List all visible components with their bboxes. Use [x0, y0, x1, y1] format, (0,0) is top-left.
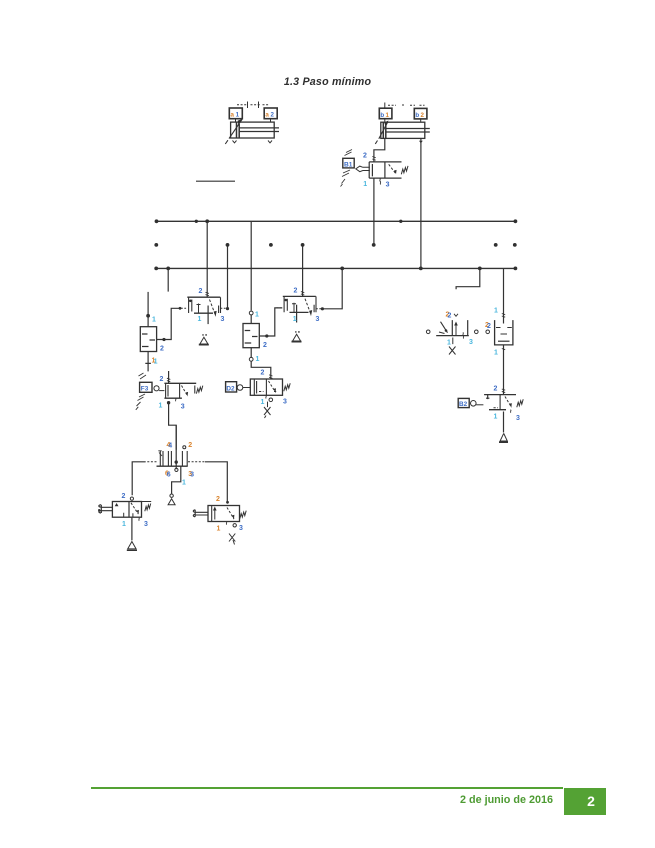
svg-text:3: 3	[469, 339, 473, 346]
junction dots upper manifold	[155, 219, 159, 223]
spring	[145, 504, 151, 512]
valve 1S2 (3/2 pilot valve, bottom left)	[98, 493, 151, 551]
footer date	[460, 794, 553, 806]
diagonal flow arrow	[269, 381, 276, 392]
spring	[240, 511, 246, 519]
sensor label box b2	[414, 108, 427, 119]
svg-text:F3: F3	[141, 386, 149, 393]
valve 3V2 (3/2 valve with label box B2, right lower)	[458, 385, 523, 442]
wire: dot stub down to valve 2V2 port 2	[302, 245, 304, 297]
cylinder 1A1 (left, double-acting)	[225, 102, 279, 145]
impulse valve 1V3 (5/2 double pilot, centre)	[132, 425, 227, 505]
centre bars	[197, 304, 201, 314]
svg-text:1: 1	[198, 316, 202, 323]
right bars	[219, 297, 221, 313]
right pilot dashes + node	[221, 307, 228, 309]
svg-text:2: 2	[122, 493, 126, 500]
internal port ticks	[124, 513, 133, 517]
bottom port stub	[145, 352, 151, 372]
sensor label box b1	[379, 108, 392, 119]
actuation arrow (diagonal)	[225, 119, 242, 144]
svg-text:3: 3	[181, 403, 185, 410]
svg-text:1: 1	[255, 312, 259, 319]
internal flow triangle	[115, 503, 119, 506]
valve body	[164, 383, 196, 398]
port 2 tick	[372, 157, 375, 161]
cylinder 1A1 body	[231, 122, 275, 138]
left pilot dashes	[277, 307, 283, 309]
floating top connector line	[147, 292, 149, 327]
label box with roller icon	[140, 382, 152, 392]
wire: valve 2S1 port 1 down through upper manifold, dot end	[373, 178, 375, 244]
connection arrow on 2A1 right port wire	[419, 141, 423, 144]
svg-text:2: 2	[294, 287, 298, 294]
top connector circle	[249, 311, 253, 315]
roller lever	[439, 322, 448, 334]
junction dots lower manifold	[154, 267, 158, 271]
svg-text:2: 2	[261, 370, 265, 377]
footer page number block	[564, 788, 606, 815]
footer green rule	[91, 787, 563, 790]
port 3 tick	[379, 178, 382, 184]
diagonal flow arrow	[389, 164, 396, 173]
body	[208, 506, 240, 522]
diagonal flow arrow	[210, 300, 216, 315]
svg-text:1: 1	[154, 358, 158, 365]
manual override X below	[264, 402, 271, 418]
internal up arrow	[455, 324, 457, 336]
right pilot wire	[188, 461, 205, 463]
svg-text:b: b	[380, 112, 384, 119]
svg-text:2: 2	[448, 313, 452, 320]
svg-text:3: 3	[386, 182, 390, 189]
internal diagonal	[131, 503, 138, 514]
shuttle valve 2V1 (two-pressure valve, middle group)	[243, 308, 282, 363]
valve body	[250, 379, 282, 395]
sensor label box a2	[264, 108, 277, 119]
port 2 wire to valve 1V2 pilot	[157, 308, 180, 339]
internal diagonal	[227, 508, 234, 520]
cup body	[495, 320, 513, 345]
svg-text:B1: B1	[344, 161, 353, 168]
timer volume 3V1 (right group)	[485, 308, 513, 395]
wire from shuttle 2V1 bottom circle to port 2	[251, 361, 271, 379]
return spring	[401, 166, 408, 174]
label arrow from B1 box	[356, 166, 370, 172]
right pilot dashes + node	[316, 308, 322, 310]
valve 2S2 (3/2 valve with label box, middle lower)	[226, 361, 291, 418]
svg-text:4: 4	[168, 443, 172, 450]
sensor label box a1	[229, 108, 242, 119]
wire: cylinder 2A1 left port elbow down to valve 2S1	[374, 139, 385, 162]
valve body rails	[187, 297, 220, 313]
svg-text:a: a	[231, 112, 235, 119]
svg-text:6: 6	[167, 471, 171, 478]
port arrows under cylinder 1A1	[233, 141, 273, 143]
spring	[517, 399, 523, 407]
exhaust below	[503, 412, 505, 433]
svg-text:B2: B2	[459, 401, 468, 408]
svg-text:1: 1	[293, 316, 297, 323]
manual override X below port 1	[449, 338, 456, 355]
body	[112, 502, 141, 518]
svg-text:D2: D2	[226, 385, 235, 392]
svg-text:1: 1	[494, 350, 498, 357]
inner dashes	[496, 328, 512, 335]
stroke measure ruler above cylinder 2A1	[385, 103, 425, 109]
valve 2V2 (3/2 pneumatic pilot valve, middle group)	[277, 287, 325, 341]
inner dashes	[245, 331, 258, 344]
svg-text:a: a	[265, 112, 269, 119]
svg-text:2: 2	[160, 346, 164, 353]
svg-text:1: 1	[152, 317, 156, 324]
left pilot piston	[193, 510, 208, 517]
side port circles	[426, 330, 430, 334]
shuttle valve 1V1 (two-pressure valve, left group)	[140, 292, 181, 372]
piston	[383, 122, 386, 138]
svg-text:1: 1	[122, 521, 126, 528]
svg-text:2: 2	[199, 288, 203, 295]
exhaust below port 1	[295, 331, 300, 333]
svg-text:3: 3	[144, 521, 148, 528]
svg-text:b: b	[415, 112, 419, 119]
exhaust below	[131, 518, 133, 541]
svg-text:1: 1	[261, 399, 265, 406]
spare wire segment (left of manifold)	[196, 180, 235, 182]
title	[0, 76, 655, 88]
svg-text:1: 1	[256, 356, 260, 363]
bottom port circle	[250, 348, 252, 358]
piston	[237, 122, 240, 138]
svg-text:2: 2	[160, 376, 164, 383]
exhaust below port 1	[202, 334, 207, 336]
stroke measure ruler above cylinder 1A1	[237, 102, 269, 109]
svg-text:3: 3	[516, 415, 520, 422]
label box B1	[343, 158, 354, 168]
svg-text:1: 1	[217, 526, 221, 533]
wire: lower manifold elbow down-left toward valve 3S1	[456, 268, 480, 289]
diagonal flow arrow	[505, 397, 511, 407]
svg-text:1: 1	[494, 308, 498, 315]
piston rod	[239, 128, 279, 132]
svg-text:1: 1	[182, 479, 186, 486]
wire: cylinder 2A1 right port down to lower manifold line	[420, 139, 422, 269]
spring	[284, 383, 290, 391]
svg-text:2: 2	[421, 112, 425, 119]
valve body	[140, 327, 156, 352]
diagonal flow arrow	[182, 386, 188, 396]
through wire	[175, 425, 177, 469]
svg-text:2: 2	[188, 442, 192, 449]
lower manifold line	[156, 267, 516, 269]
cylinder 2A1 body	[381, 122, 425, 138]
svg-text:2: 2	[487, 323, 491, 330]
node dot end of 2S1 wire	[372, 243, 376, 247]
svg-text:2: 2	[263, 342, 267, 349]
valve 2S1b (3/2 pilot valve, bottom middle)	[193, 496, 246, 545]
label box stems	[236, 119, 271, 122]
svg-text:2: 2	[216, 496, 220, 503]
internal up arrow	[214, 509, 216, 520]
wire: valve 1S1 port 1 elbow down to valve 1V3	[169, 403, 177, 450]
body	[157, 465, 188, 467]
svg-text:3: 3	[239, 525, 243, 532]
left pilot dashes	[181, 307, 187, 309]
valve body	[369, 162, 401, 178]
diagonal flow arrow	[305, 299, 311, 314]
port 2 wire to valve 2V2 pilot	[259, 308, 282, 336]
ports	[167, 401, 170, 404]
valve body rails	[283, 296, 316, 312]
upper manifold line	[156, 220, 515, 222]
svg-text:2: 2	[271, 112, 275, 119]
svg-text:1: 1	[447, 340, 451, 347]
actuation arrow (diagonal)	[375, 122, 388, 144]
decorative scribbles near B1	[341, 150, 353, 187]
svg-text:1: 1	[494, 414, 498, 421]
svg-text:3: 3	[316, 316, 320, 323]
manual override X below	[229, 534, 235, 545]
cylinder 2A1 (right, double-acting)	[375, 103, 430, 144]
svg-text:3: 3	[190, 472, 194, 479]
exhaust elbow below	[172, 466, 181, 494]
svg-text:1: 1	[386, 112, 390, 119]
svg-text:2: 2	[363, 153, 367, 160]
valve 1S1 (3/2 valve with label box, left lower)	[136, 371, 203, 410]
svg-text:1: 1	[236, 112, 240, 119]
label box with clock icon	[226, 382, 237, 392]
valve 2S1 (3/2 roller limit valve under cylinder 2A1)	[341, 150, 409, 189]
wire: dot stub down to valve 1V2 right pilot	[227, 245, 229, 308]
label box stems	[385, 119, 421, 122]
scribbles around label	[136, 373, 146, 410]
body	[436, 335, 469, 337]
wire: lower manifold down to timer 3V1 top	[503, 268, 505, 323]
piston rod	[386, 129, 430, 133]
svg-text:1: 1	[363, 181, 367, 188]
label box B2 with clock icon	[458, 398, 469, 407]
left pilot piston	[99, 505, 113, 513]
wire: lower manifold down (left feeder)	[167, 268, 169, 291]
port 2 stub	[168, 371, 170, 383]
spring	[196, 386, 202, 394]
floating node dots between manifolds	[154, 243, 158, 247]
wire: upper manifold to shuttle valve 1V1 top port	[250, 221, 252, 310]
svg-text:3: 3	[283, 399, 287, 406]
svg-text:1: 1	[159, 403, 163, 410]
valve body	[243, 324, 259, 348]
svg-text:3: 3	[221, 316, 225, 323]
inner dashes	[142, 334, 155, 347]
svg-text:2: 2	[494, 385, 498, 392]
wire: upper manifold to valve 1V2 port 2	[206, 221, 208, 297]
top line to right	[132, 501, 151, 503]
valve 1V2 (3/2 pneumatic pilot valve, left group)	[181, 288, 229, 345]
body rails	[484, 395, 516, 410]
wire: lower manifold down to valve 2V2 right side	[322, 268, 342, 308]
left pilot wire	[146, 461, 157, 463]
valve 3S1 (3/2 roller lever valve, right group)	[426, 312, 478, 355]
